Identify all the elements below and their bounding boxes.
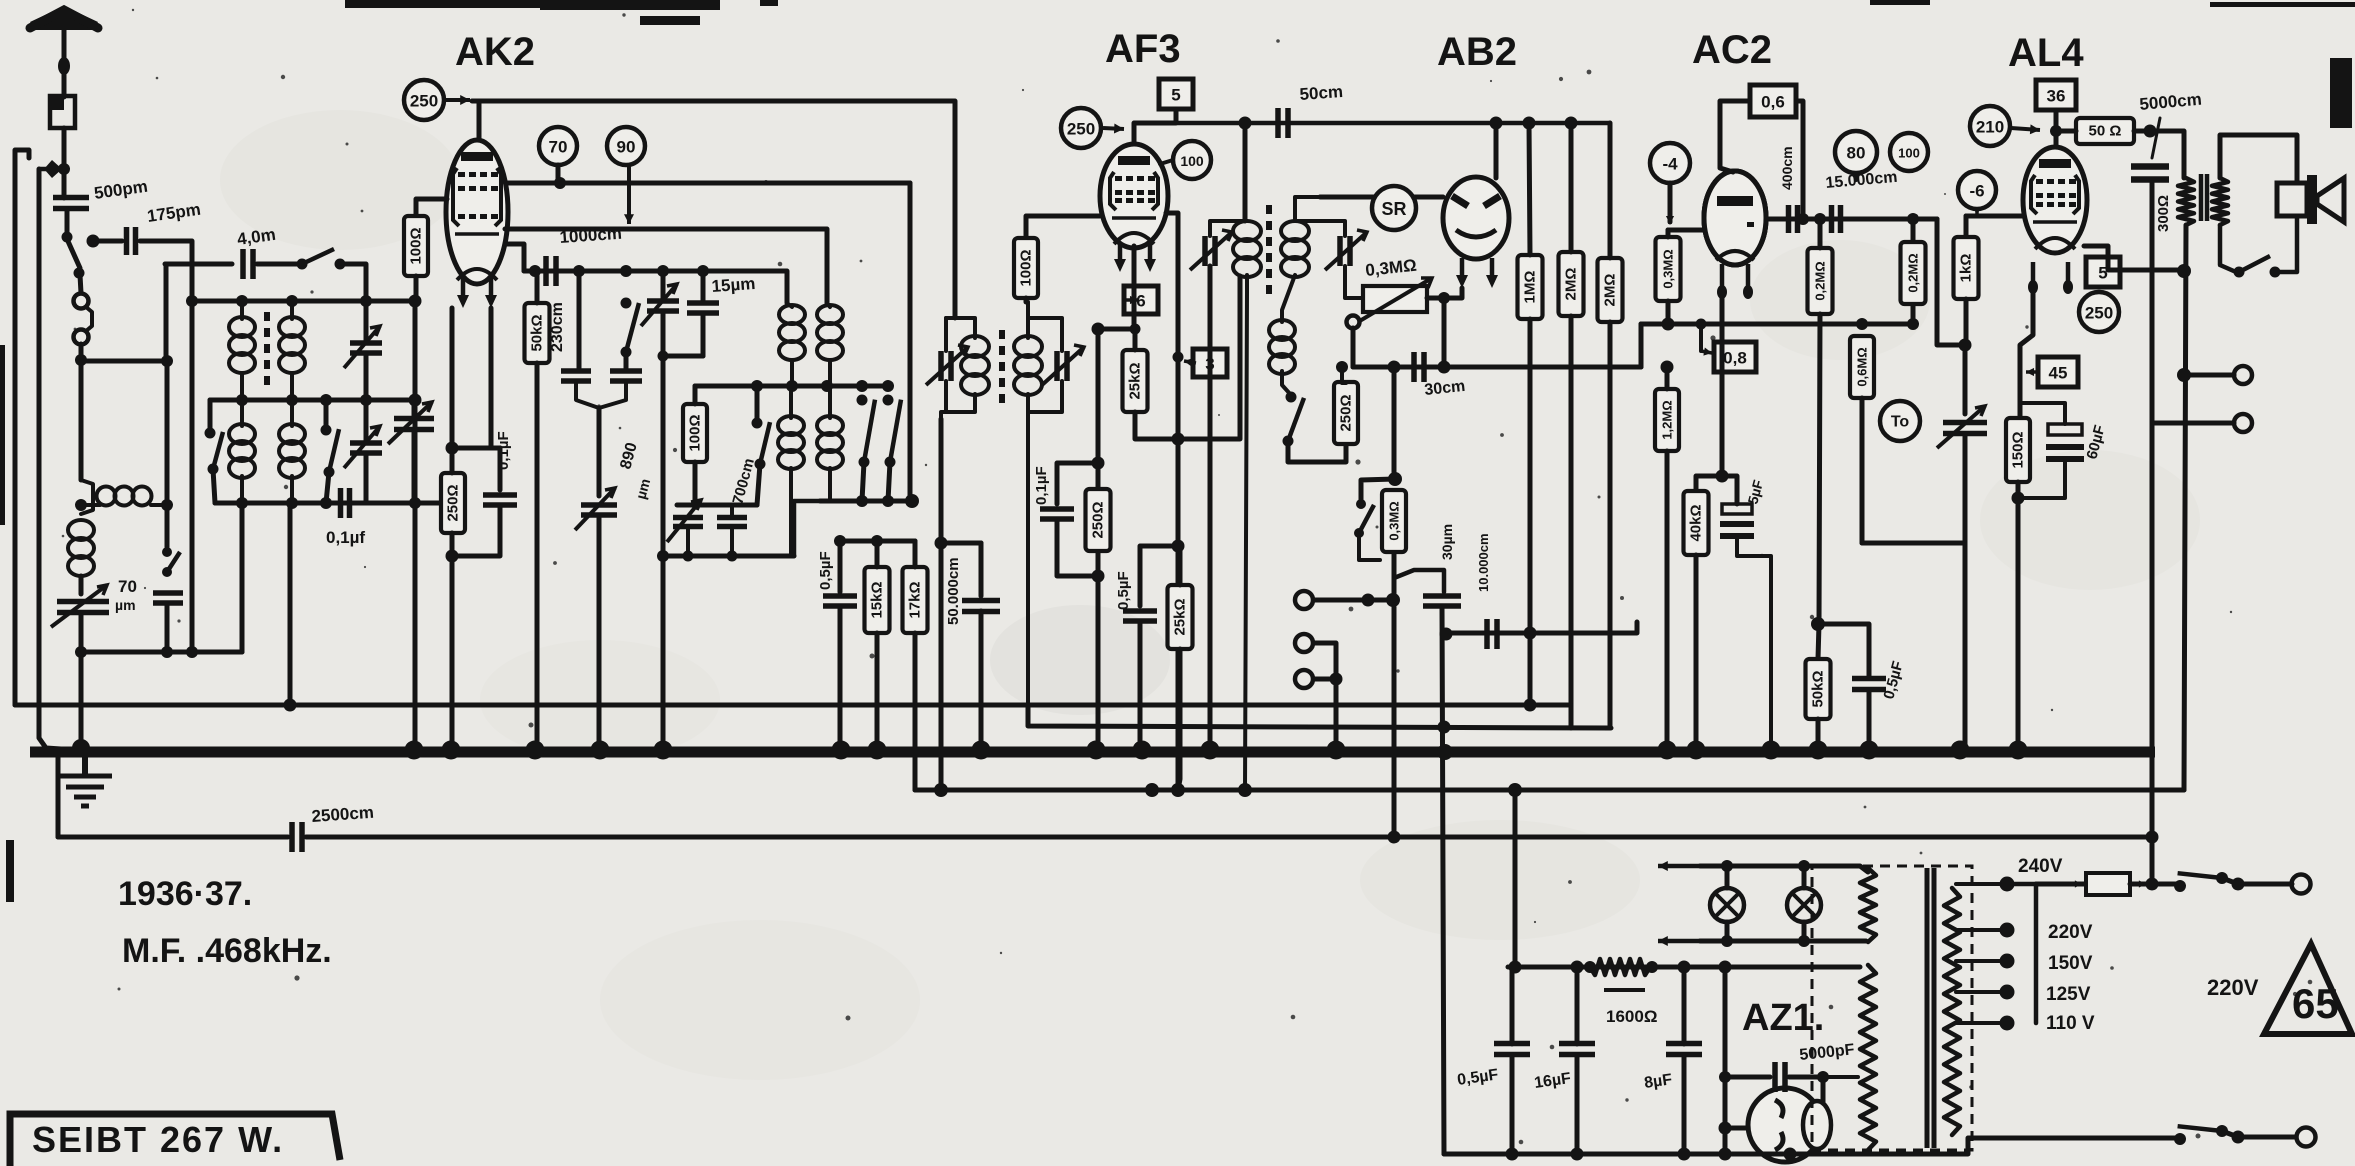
coil band LW primary bot <box>240 476 244 503</box>
label 1936-37 <box>118 875 252 913</box>
svg-text:80: 80 <box>1847 144 1866 163</box>
svg-text:SEIBT 267 W.: SEIBT 267 W. <box>32 1119 284 1160</box>
coil IF bank upper right <box>817 305 843 360</box>
resistor 17kΩ <box>903 567 928 633</box>
node brail 1577 <box>1571 1148 1584 1161</box>
capacitor 15µm <box>687 303 719 313</box>
arrow -4 <box>1666 210 1674 224</box>
svg-text:0,8: 0,8 <box>1723 349 1747 368</box>
label 220V triangle <box>2207 975 2259 1000</box>
node 324 <box>1662 318 1675 331</box>
wire OT primary down <box>2184 225 2186 790</box>
switch band left <box>205 428 224 475</box>
node 386 b <box>786 380 798 392</box>
wire AC2 grid <box>1668 228 1740 233</box>
trimmer 700cm <box>667 500 703 542</box>
label 0.3MΩ pot <box>1364 256 1417 280</box>
wire x167 node to x81 <box>81 359 167 364</box>
IFT2 core dashes <box>1266 205 1272 294</box>
capacitor 500pm <box>53 198 89 209</box>
coil lower right bot <box>828 468 832 501</box>
label 0.5µF AF3 <box>1115 571 1132 610</box>
node coil70 right <box>161 499 173 511</box>
tube AF3 pin 1 <box>1114 242 1126 272</box>
capacitor 5µF electrolytic <box>1720 504 1754 536</box>
wire row 400 <box>210 398 415 403</box>
switch mute top <box>1361 479 1395 504</box>
switch padder <box>621 298 640 358</box>
bus joint x415 <box>405 741 424 760</box>
label 5µF <box>1744 478 1766 506</box>
svg-text:1MΩ: 1MΩ <box>1522 271 1539 304</box>
bus joint 5uF <box>1762 741 1781 760</box>
resistor 0.3MΩ mute <box>1382 490 1406 552</box>
svg-text:AK2: AK2 <box>455 30 535 74</box>
tap lead 220V <box>1956 928 2002 932</box>
svg-text:250: 250 <box>410 92 438 111</box>
tuning cap1 bot lead <box>412 430 417 503</box>
arrow lamp line 2 <box>1658 936 1700 946</box>
cap psu1 top <box>1510 967 1515 1044</box>
scan artifact top right <box>1870 0 2355 128</box>
junction plug line <box>58 163 70 175</box>
tube AL4 <box>2023 147 2087 253</box>
label 0.1µF AF3 <box>1033 466 1050 505</box>
label 150V <box>2048 953 2093 974</box>
wire tap bracket <box>2034 884 2039 1023</box>
wire row 386 <box>695 384 888 389</box>
switch bank c bot <box>757 464 760 505</box>
tube AK2 <box>446 140 508 284</box>
trimmer IFT1 right <box>1042 345 1084 385</box>
wire 50k bottom <box>535 363 540 744</box>
junction bus left <box>72 739 90 757</box>
resistor 1600Ω bar <box>1604 988 1645 992</box>
svg-text:0,5µF: 0,5µF <box>1115 571 1132 610</box>
voltage label 210 <box>1970 106 2010 146</box>
bus joint 250ohm AK2 <box>442 741 461 760</box>
label 5000cm <box>2139 90 2203 114</box>
label 15µm <box>711 274 756 296</box>
svg-text:40kΩ: 40kΩ <box>1688 504 1705 541</box>
resistor 50kΩ output <box>1806 659 1831 719</box>
bus joint cap05 <box>832 741 851 760</box>
coil IFT1 primary <box>961 336 989 395</box>
switch 70 branch <box>162 547 180 577</box>
wire x415 down <box>413 301 418 752</box>
label 890µm <box>617 441 640 471</box>
transformer secondary winding <box>1944 888 1960 1135</box>
tube AL4 pin 2 <box>2063 262 2073 294</box>
label AB2 <box>1437 30 1517 74</box>
switch 4m <box>297 249 346 270</box>
node 546 <box>1172 540 1185 553</box>
dial lamp 1 <box>1710 888 1744 922</box>
svg-text:-4: -4 <box>1662 155 1678 174</box>
wire pickup2 <box>1314 643 1336 679</box>
label 240V <box>2018 856 2063 877</box>
coil upper right top <box>827 303 830 307</box>
voltage label 250 AF3 <box>1061 108 1101 148</box>
wire 5µF bot <box>1737 538 1771 744</box>
node 501 b <box>882 495 894 507</box>
wire row 505 <box>677 503 757 508</box>
wire cap01 bot <box>452 505 500 556</box>
svg-text:50.000cm: 50.000cm <box>945 557 962 625</box>
tuning cap1 top lead <box>412 400 417 418</box>
wire AB2 anode feed <box>1494 123 1499 178</box>
node mute 600 <box>1386 593 1400 607</box>
ground symbol <box>58 752 112 806</box>
wire x1394 from line367 <box>1392 367 1397 479</box>
mains terminal 1 <box>2292 875 2311 894</box>
switch band left bot lead <box>213 469 215 503</box>
wire 250AB2 top <box>1342 367 1346 383</box>
wire 12M bot <box>1665 451 1670 744</box>
svg-text:0,2MΩ: 0,2MΩ <box>1813 261 1828 300</box>
node 2500 1394 <box>1388 831 1401 844</box>
svg-text:µm: µm <box>115 597 136 613</box>
svg-text:AB2: AB2 <box>1437 30 1517 74</box>
node 1394 479 <box>1388 472 1402 486</box>
tap lead 240V <box>1956 882 2002 886</box>
svg-text:300Ω: 300Ω <box>2155 195 2172 232</box>
node x415 301 <box>409 295 422 308</box>
trimmer band lower bot <box>364 453 369 503</box>
resistor 1.2MΩ <box>1655 389 1679 451</box>
node 271 b <box>573 265 585 277</box>
node 367 12M <box>1661 361 1674 374</box>
wire coil top hook <box>81 480 93 514</box>
bus joint 05uF3 <box>1860 741 1879 760</box>
node cap70 652 <box>161 646 173 658</box>
trimmer IFT1 left <box>926 345 968 385</box>
svg-text:100Ω: 100Ω <box>408 227 425 264</box>
svg-text:70: 70 <box>549 138 568 157</box>
wire 70 pointer <box>556 165 561 181</box>
tube AL4 pin 1 <box>2028 262 2038 294</box>
pickup terminal 3 <box>1295 670 1313 688</box>
junction selector bottom <box>75 354 87 366</box>
resistor 40kΩ <box>1684 491 1709 555</box>
wire 1M bot <box>1528 319 1533 705</box>
resistor 1kΩ <box>1954 237 1979 299</box>
node 1M 633 <box>1524 627 1537 640</box>
wire x941 down <box>939 419 944 790</box>
IFT1 trimmer right bot <box>1028 381 1062 412</box>
wire -4 lead <box>1668 183 1673 222</box>
svg-text:AL4: AL4 <box>2008 31 2084 75</box>
node 70 pointer <box>554 177 566 189</box>
node 1913 219 <box>1907 213 1919 225</box>
svg-text:250: 250 <box>1067 120 1095 139</box>
wire x1210 to bus <box>1208 266 1213 744</box>
wire coupling down <box>1937 219 1965 345</box>
pickup terminal 2 <box>1295 634 1313 652</box>
tube AK2 pin lead 1 <box>457 276 469 308</box>
transformer core dashes A <box>264 312 270 385</box>
tube AB2 <box>1443 177 1509 259</box>
node out1 <box>2177 368 2191 382</box>
wire 0.6 left hook <box>1720 101 1750 172</box>
wire row 501 left <box>794 501 820 556</box>
resistor 1MΩ <box>1518 255 1543 319</box>
switch mains 2 <box>2174 1125 2228 1145</box>
label 5000pF <box>1799 1041 1856 1064</box>
wire 546 left <box>1140 546 1178 606</box>
svg-text:125V: 125V <box>2046 984 2091 1005</box>
trimmer band upper leads <box>364 301 369 343</box>
label 70 µm <box>118 577 137 596</box>
wire x1444 down <box>1442 298 1447 367</box>
node 356 a <box>658 351 669 362</box>
svg-text:50kΩ: 50kΩ <box>1810 670 1827 707</box>
antenna <box>30 6 98 75</box>
lamp2 leads <box>1802 866 1807 888</box>
svg-text:240V: 240V <box>2018 856 2063 877</box>
wire cap01 top lead <box>498 448 503 490</box>
label 1600Ω <box>1606 1007 1657 1026</box>
tube AC2 pin 2 <box>1743 264 1753 299</box>
node lamp2 bot <box>1798 935 1810 947</box>
voltage label 90 <box>607 127 645 165</box>
wire 02Ma bot <box>1818 314 1820 659</box>
pickup terminal 1 <box>1295 591 1313 609</box>
wire return line 705 <box>15 703 1571 708</box>
IFT2 primary bot lead <box>1245 275 1247 790</box>
wire mute node drop <box>1392 607 1397 837</box>
node x192 652 <box>186 646 198 658</box>
pin label 6 <box>1124 286 1158 314</box>
wire line790 <box>915 788 2184 793</box>
wire AL4 cathode <box>2020 290 2033 417</box>
label 300Ω <box>2155 195 2172 232</box>
wire B+ feed 1515 <box>1513 790 1518 967</box>
wire 05uF3 top <box>1818 624 1869 676</box>
label 30cm <box>1424 378 1466 399</box>
switch mute bot <box>1359 533 1380 560</box>
wire 150 bot <box>2016 482 2021 744</box>
IFT1 core dashes <box>999 330 1005 403</box>
transformer primary winding <box>1860 965 1876 1150</box>
resistor 15kΩ <box>865 567 890 633</box>
wire selector down <box>79 344 84 360</box>
wire row 356 <box>663 354 703 359</box>
wire cap05 top <box>838 541 843 592</box>
node 2150 131 <box>2144 125 2157 138</box>
label 0.5µF PSU <box>1456 1066 1499 1089</box>
wire 15k bot <box>875 633 880 744</box>
svg-text:AF3: AF3 <box>1105 27 1181 71</box>
arrow 0.8 <box>1701 348 1712 356</box>
svg-text:2MΩ: 2MΩ <box>1563 268 1580 301</box>
coil lower left top <box>789 386 793 418</box>
lamp1 leads <box>1725 866 1730 888</box>
switch bank a <box>857 395 876 468</box>
wire grid AB2 <box>1320 195 1443 200</box>
capacitor 0.1µF AK2 <box>483 495 517 505</box>
svg-text:5: 5 <box>1171 86 1180 105</box>
node 386 c <box>821 380 833 392</box>
node 400 c <box>320 394 332 406</box>
switch band left top lead <box>208 400 213 433</box>
wire AL4 anode out <box>2084 246 2184 270</box>
wire line 2500 <box>58 835 288 840</box>
tap dot 240V <box>2000 877 2015 892</box>
scan artifact bottom left <box>6 840 14 902</box>
label AC2 <box>1692 28 1772 72</box>
wire cath row <box>2020 403 2065 424</box>
switch band right bot <box>326 472 329 503</box>
IFT2 trimmer left top <box>1210 221 1247 236</box>
wire 17k bot <box>913 633 918 790</box>
lamp1 bot lead <box>1725 922 1730 941</box>
wire AZ1 left <box>1725 1126 1748 1131</box>
node 1394 367 <box>1388 361 1401 374</box>
wire pin2 down <box>489 308 494 448</box>
wire 100ohm to row301 <box>414 276 419 301</box>
bus joint x663 <box>654 741 673 760</box>
coil upper right bot <box>828 361 832 386</box>
label 890µm b <box>632 477 653 501</box>
voltage label 80 <box>1835 131 1877 173</box>
wire pot right <box>1427 296 1444 301</box>
wire switch speaker right <box>2275 216 2297 272</box>
label AZ1 <box>1742 997 1824 1039</box>
wire 1k bot <box>1964 299 1969 345</box>
node brail 1512 <box>1506 1148 1519 1161</box>
wire cap05 bot <box>838 606 843 744</box>
pin label 100 AF3 <box>1173 141 1211 179</box>
label 30µm <box>1439 524 1455 560</box>
capacitor 0.1µF AF3 <box>1040 509 1074 519</box>
output transformer secondary <box>2212 178 2228 225</box>
tap lead 125V <box>1956 990 2002 994</box>
wire 5000pF line <box>1725 1075 1770 1080</box>
node 541 a <box>834 535 846 547</box>
tube AZ1 <box>1748 1088 1831 1162</box>
wire 60µF bot <box>2018 461 2065 498</box>
wire 03M bot <box>1666 301 1671 324</box>
wire left rail 1 <box>13 158 18 705</box>
arrow fuse a <box>2070 880 2082 887</box>
label AL4 <box>2008 31 2084 75</box>
coil detector <box>1269 320 1295 374</box>
coil 70 <box>97 487 152 506</box>
trimmer IFT2 right <box>1325 230 1367 270</box>
voltage label 70 <box>539 127 577 165</box>
wire AF3 cathode <box>1132 246 1137 329</box>
wire x192 down <box>190 301 195 652</box>
node 503 d <box>409 497 421 509</box>
wire 0.8 hook <box>1699 324 1703 351</box>
capacitor 175pm <box>127 227 136 255</box>
wire coil70 left <box>81 503 100 507</box>
arrow 90 down <box>624 165 634 224</box>
node cath 498 <box>2012 492 2025 505</box>
wire mute bottom node <box>1392 553 1397 600</box>
wire 25k2 top <box>1178 546 1183 585</box>
node x167 top <box>161 355 173 367</box>
coil ant secondary <box>279 317 305 373</box>
node 386 a <box>751 380 763 392</box>
resistor 100Ω AF3 <box>1014 238 1038 298</box>
OT secondary bot <box>2220 225 2236 272</box>
svg-text:15kΩ: 15kΩ <box>869 581 886 618</box>
voltage label -6 <box>1958 171 1996 209</box>
tap dot 220V <box>2000 923 2015 938</box>
wire 06M bot <box>1860 398 1865 543</box>
transformer heater winding <box>1860 868 1876 942</box>
wire pin5 lead <box>1134 109 1176 148</box>
node mains sw1 <box>2232 878 2245 891</box>
node 556 b <box>683 551 694 562</box>
wire x1725 <box>1723 967 1728 1154</box>
resistor 2MΩ a <box>1559 252 1584 316</box>
wire 100AF3 bot <box>1024 298 1029 302</box>
node pickup3 <box>1330 673 1343 686</box>
node rail 1577 <box>1571 961 1584 974</box>
node anode 355 <box>1173 352 1184 363</box>
node AZ1 left <box>1719 1122 1732 1135</box>
coil ant secondary top lead <box>290 301 294 319</box>
capacitor 0.5µF PSU <box>1494 1044 1530 1055</box>
wire 5000 bot <box>2150 180 2155 887</box>
capacitor 60µF electrolytic <box>2046 424 2084 459</box>
wire row 264 <box>165 262 232 267</box>
wire 50ohm right <box>2134 129 2150 134</box>
node 503 c <box>320 497 332 509</box>
label MF 468kHz <box>122 932 332 970</box>
pin label 36 <box>2036 80 2076 110</box>
wire 2Mb top <box>1608 123 1613 258</box>
node 329 <box>1092 323 1105 336</box>
wire 0.6 right hook <box>1796 101 1803 219</box>
selector link <box>86 307 92 331</box>
node 503 b <box>286 497 298 509</box>
wire cath left <box>1696 476 1722 491</box>
wire mains t1 <box>2222 878 2292 884</box>
wire 2Ma bot <box>1569 316 1574 728</box>
wire coil bottom <box>79 576 84 594</box>
label 60µF <box>2083 423 2108 461</box>
node 367 250 <box>1336 361 1348 373</box>
svg-text:0,1µf: 0,1µf <box>326 528 365 547</box>
svg-text:100Ω: 100Ω <box>1018 249 1035 286</box>
node 386 e <box>882 380 894 392</box>
IFT1 trimmer left bot <box>944 381 948 412</box>
wire row 543 <box>1862 541 1965 546</box>
bus joint pickup <box>1327 741 1346 760</box>
node 386 d <box>856 380 868 392</box>
wire 12M top <box>1665 367 1670 389</box>
voltage label -4 <box>1650 143 1690 183</box>
node 1803 219 <box>1797 213 1809 225</box>
wire AK2 anode supply <box>472 101 955 318</box>
wire x81 down to coil <box>79 360 84 480</box>
svg-text:0,1µF: 0,1µF <box>1033 466 1050 505</box>
node 439 <box>1172 433 1185 446</box>
node 501 c <box>905 494 919 508</box>
node 02Ma top <box>1814 213 1826 225</box>
label AF3 <box>1105 27 1181 71</box>
coil lower right top <box>828 386 832 418</box>
label 50000cm <box>945 557 962 625</box>
svg-text:1936·37.: 1936·37. <box>118 875 252 913</box>
wire coupling 219 <box>1766 217 1937 222</box>
resistor 250Ω AF3 <box>1086 489 1111 551</box>
wire 10000 line <box>1446 622 1637 633</box>
